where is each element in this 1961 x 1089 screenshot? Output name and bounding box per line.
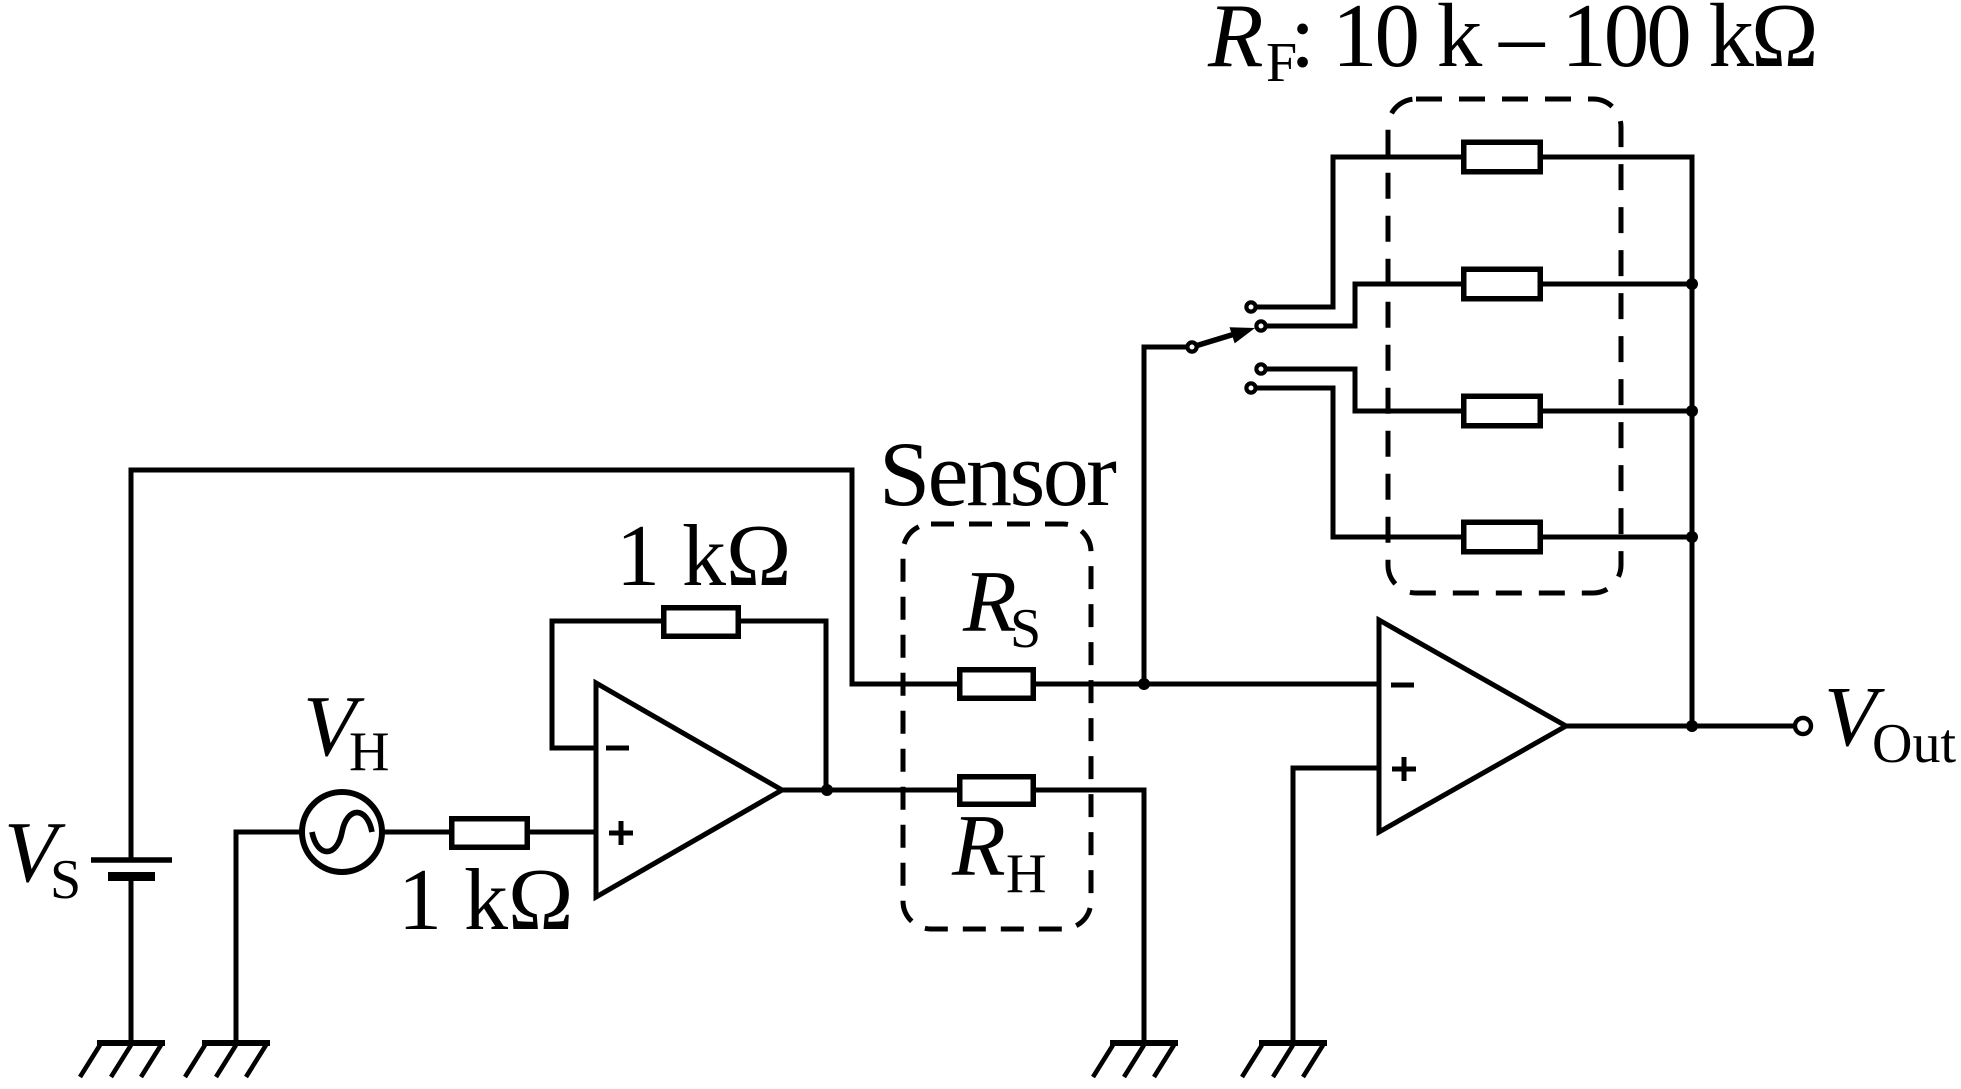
svg-text:1 kΩ: 1 kΩ — [398, 852, 573, 949]
svg-text:1 kΩ: 1 kΩ — [616, 508, 791, 605]
svg-text:Out: Out — [1872, 713, 1956, 775]
svg-text:S: S — [50, 849, 81, 911]
svg-text:H: H — [349, 721, 389, 783]
svg-text:R: R — [951, 798, 1006, 895]
svg-text:H: H — [1006, 843, 1046, 905]
svg-text:R: R — [962, 554, 1017, 651]
svg-text:Sensor: Sensor — [879, 423, 1116, 525]
svg-text:R: R — [1207, 0, 1264, 86]
svg-text:: 10 k – 100 kΩ: : 10 k – 100 kΩ — [1290, 0, 1816, 86]
svg-text:S: S — [1010, 598, 1041, 660]
